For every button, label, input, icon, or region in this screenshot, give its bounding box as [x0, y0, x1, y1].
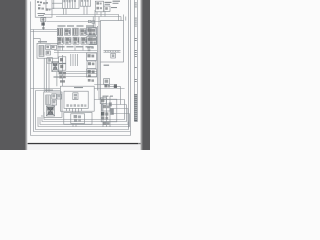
right column C2: [87, 37, 97, 45]
relay labels top: [58, 25, 95, 26]
wire bus 2: [42, 105, 127, 122]
wire: [66, 71, 97, 73]
label text T1: [54, 76, 60, 77]
relay K8: [73, 37, 79, 44]
sidebar text group4: [134, 50, 136, 57]
label text A1: [38, 13, 46, 16]
relay K4: [80, 29, 86, 35]
label text A4: [45, 90, 53, 91]
wire: [94, 99, 124, 101]
ic U1: [95, 1, 103, 12]
wire: [56, 16, 121, 18]
control box A2: [37, 43, 58, 58]
right column boxes C1: [87, 27, 97, 34]
tiny text dashes layer: [38, 1, 138, 122]
diode CR3 mark: [114, 84, 117, 88]
connector J2 marks: [81, 0, 89, 2]
bottom right relay D2: [102, 104, 110, 111]
fuse F1: [111, 53, 116, 58]
wire: [94, 88, 124, 90]
bottom right relay D1: [100, 98, 106, 104]
label text top right: [113, 1, 121, 4]
wire bus 6: [34, 30, 131, 132]
relay K10: [89, 37, 97, 45]
bottom right cluster marks: [101, 99, 114, 125]
wire: [120, 87, 122, 105]
wire: [31, 88, 61, 90]
frame right border: [130, 0, 132, 136]
relay bank row2 marks: [58, 38, 96, 44]
terminal block TB1: [101, 21, 124, 63]
A2 hatch marks: [40, 46, 55, 56]
page background: [0, 0, 150, 150]
T1 dark: [53, 62, 58, 70]
component in A3: [73, 93, 78, 100]
wire bus 3: [40, 109, 128, 125]
A3 comp mark: [74, 94, 77, 99]
sidebar text group2: [134, 18, 136, 27]
module B marks: [59, 58, 66, 83]
lower box A5: [64, 112, 92, 124]
dark fills layer: [37, 0, 117, 125]
right column marks: [87, 29, 94, 82]
module column box B1: [59, 57, 66, 63]
component in A2: [46, 45, 57, 55]
wire: [93, 10, 95, 28]
hatch bar in A4: [46, 95, 51, 105]
sidebar text group3: [134, 38, 136, 41]
relay bank row1 hatch K1: [57, 28, 62, 35]
components in A4: [52, 94, 62, 105]
wire: [54, 52, 97, 54]
label text U1: [105, 2, 118, 8]
viewer right band: [140, 0, 150, 150]
battery charger box A3: [60, 86, 94, 111]
wire: [63, 8, 66, 14]
wire: [34, 39, 41, 44]
relay bank row2 K6: [57, 37, 63, 44]
wire risers: [71, 54, 78, 66]
relay K2: [65, 29, 71, 36]
relay bank row1 marks: [58, 29, 95, 35]
relay K9: [81, 38, 87, 45]
label text D0: [103, 96, 114, 97]
transformer T1: [52, 61, 59, 71]
wire stubs below A5: [73, 124, 79, 127]
M1 dark fill: [47, 107, 53, 115]
wire: [60, 46, 83, 51]
wire: [84, 6, 87, 14]
wire: [66, 76, 97, 78]
relay K5: [88, 28, 96, 36]
sidebar text block bottom: [134, 94, 137, 121]
label text A2: [38, 41, 47, 42]
hatch bar in A2: [39, 45, 44, 56]
wire: [36, 90, 61, 92]
wire: [97, 11, 105, 16]
wire: [31, 31, 58, 33]
sidebar text group1: [134, 2, 136, 7]
connector J1 marks: [63, 0, 76, 2]
wire bus 5: [36, 91, 129, 130]
wire: [56, 72, 58, 87]
diode CR2 dark: [41, 18, 44, 29]
connector strip J2: [80, 0, 90, 6]
sidebar text group5: [134, 67, 136, 82]
motor M1 dark: [46, 106, 54, 116]
sidebar strip: [135, 0, 138, 122]
wire: [110, 108, 128, 110]
relay labels bottom: [58, 46, 94, 47]
starter box A4: [44, 92, 62, 117]
F1 mark: [112, 54, 115, 57]
diode CR1: [41, 18, 46, 22]
wire: [66, 73, 97, 75]
page bottom edge line: [28, 143, 141, 150]
frame bottom border: [31, 135, 131, 137]
wire main bus: [44, 14, 119, 16]
wire: [47, 21, 101, 23]
wire: [112, 113, 129, 115]
viewer left band: [0, 0, 28, 150]
wire: [110, 104, 126, 106]
wire: [94, 84, 113, 86]
S1 mark: [48, 59, 51, 62]
wire: [44, 58, 49, 92]
wire: [42, 17, 44, 30]
A4 marks: [46, 94, 60, 104]
bottom right cluster wires: [103, 96, 110, 127]
ic U1 marks: [96, 2, 107, 10]
wire drop to relay box: [119, 15, 126, 21]
wire: [31, 29, 58, 31]
module B2: [59, 64, 66, 70]
wire bus 4: [38, 114, 130, 127]
wire bus 1: [44, 100, 125, 120]
A5 dark marks: [74, 115, 81, 122]
wire: [110, 86, 121, 88]
relay module box D0: [101, 99, 117, 122]
solenoid L1: [104, 79, 110, 85]
wire: [52, 2, 62, 4]
ic U2: [104, 6, 110, 11]
right column wires: [98, 17, 101, 100]
regulator A1 marks: [37, 1, 50, 11]
wire stubs below A3: [67, 108, 82, 112]
label text A3: [74, 87, 83, 88]
wire: [52, 7, 62, 9]
wire: [54, 50, 97, 52]
right column C3: [87, 53, 97, 61]
module column vertical wire: [62, 55, 64, 86]
right column C4: [87, 61, 96, 69]
switch S1: [47, 58, 52, 64]
inner box of A3: [64, 91, 88, 108]
label text TB1: [104, 65, 110, 66]
A3 bottom marks: [66, 104, 86, 107]
small comps near relay bank: [88, 20, 94, 23]
frame left border: [30, 2, 32, 136]
relay K7: [65, 38, 71, 45]
terminal strip inside TB1: [104, 51, 121, 53]
connector strip J1: [62, 0, 79, 8]
L1 marks: [104, 80, 110, 88]
frame inner right border: [128, 0, 130, 128]
right column C5 dark cluster: [87, 69, 97, 77]
regulator box A1: [35, 0, 54, 17]
relay hatch K3: [73, 28, 79, 35]
inner box of A5: [71, 114, 85, 124]
